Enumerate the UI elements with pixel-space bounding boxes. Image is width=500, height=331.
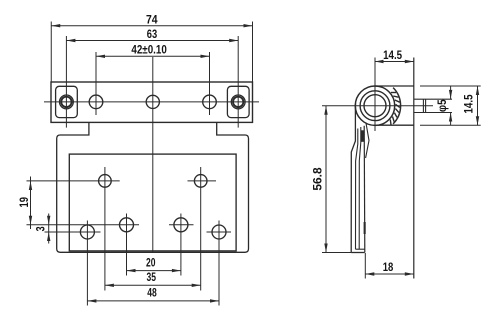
hole top-right bbox=[194, 175, 207, 188]
head inner circle bbox=[364, 95, 386, 117]
hole outer-left cross bbox=[45, 231, 101, 233]
hole top-right cross bbox=[188, 180, 217, 182]
pin bottom line bbox=[414, 112, 452, 114]
dimension 3 bbox=[48, 214, 50, 244]
head top flat bbox=[375, 85, 414, 87]
head cam hatch ticks bbox=[391, 92, 396, 94]
svg-text:63: 63 bbox=[147, 27, 158, 41]
hole outer-right bbox=[212, 225, 226, 239]
head outer circle bbox=[355, 86, 394, 125]
svg-text:74: 74 bbox=[146, 12, 158, 26]
body right edge bbox=[413, 58, 415, 279]
lever rivet pin bbox=[361, 130, 364, 142]
bar hole right centerline bbox=[209, 52, 211, 115]
dimension 14.5 top bbox=[375, 61, 414, 63]
svg-text:18: 18 bbox=[383, 260, 394, 274]
svg-text:42±0.10: 42±0.10 bbox=[131, 43, 167, 57]
dimension 19 bbox=[30, 177, 32, 230]
dimension 63 bbox=[66, 40, 238, 42]
right pad centerline bbox=[237, 36, 239, 128]
head cam crescent bbox=[393, 88, 400, 124]
lever bottom edge bbox=[351, 252, 365, 254]
pin end faces bbox=[422, 99, 424, 112]
hole top-left cross bbox=[27, 180, 120, 182]
body outline bbox=[57, 122, 249, 252]
lever screw mark bbox=[364, 222, 366, 234]
svg-text:14.5: 14.5 bbox=[383, 48, 402, 62]
dimension φ5 bbox=[450, 87, 452, 99]
svg-text:35: 35 bbox=[147, 270, 157, 284]
lever right edge bbox=[363, 126, 366, 253]
hole outer-right cross bbox=[207, 231, 232, 233]
right pad bbox=[227, 86, 249, 117]
bar hole left centerline bbox=[95, 52, 97, 115]
svg-text:48: 48 bbox=[147, 286, 157, 300]
bar hole center bbox=[146, 95, 159, 108]
svg-text:19: 19 bbox=[17, 197, 31, 208]
hole mid-right bbox=[174, 218, 188, 232]
dimension 35 bbox=[105, 284, 201, 286]
dimension 56.8 bbox=[325, 106, 327, 253]
svg-text:56.8: 56.8 bbox=[311, 167, 325, 191]
hole mid-left bbox=[120, 218, 134, 232]
head middle circle bbox=[360, 91, 390, 121]
lever bend hint bbox=[366, 123, 369, 158]
lever outer edge bbox=[351, 104, 355, 253]
head bottom flat bbox=[378, 124, 414, 126]
bar hole right bbox=[203, 95, 217, 109]
dimension 74 bbox=[50, 22, 52, 82]
dimension 14.5 right bbox=[420, 85, 481, 87]
lever line 3 bbox=[359, 127, 361, 249]
body inner rect bbox=[69, 154, 236, 251]
hole outer-left bbox=[80, 225, 94, 239]
hole mid-right cross bbox=[169, 224, 194, 226]
svg-text:20: 20 bbox=[146, 256, 156, 270]
svg-text:φ5: φ5 bbox=[435, 99, 449, 112]
svg-text:14.5: 14.5 bbox=[462, 94, 476, 113]
hole mid-left cross bbox=[27, 224, 140, 226]
dimension 20 bbox=[127, 270, 181, 272]
svg-text:3: 3 bbox=[33, 226, 47, 231]
pin top line bbox=[414, 98, 452, 100]
dimension 18 bbox=[364, 253, 366, 279]
dimension 48 bbox=[87, 300, 219, 302]
hole top-left bbox=[99, 175, 112, 188]
bar hole left bbox=[89, 95, 103, 109]
lever line 2 bbox=[356, 129, 358, 250]
head horizontal centerline bbox=[322, 105, 433, 107]
dimension 42±0.10 bbox=[96, 55, 210, 57]
head vertical centerline bbox=[374, 58, 376, 132]
left pad centerline bbox=[65, 36, 67, 128]
main vertical centerline bbox=[152, 57, 154, 252]
bar outline bbox=[51, 82, 253, 122]
left pad bbox=[56, 86, 78, 117]
lever notch bbox=[356, 248, 365, 250]
bar horizontal centerline bbox=[44, 101, 259, 103]
